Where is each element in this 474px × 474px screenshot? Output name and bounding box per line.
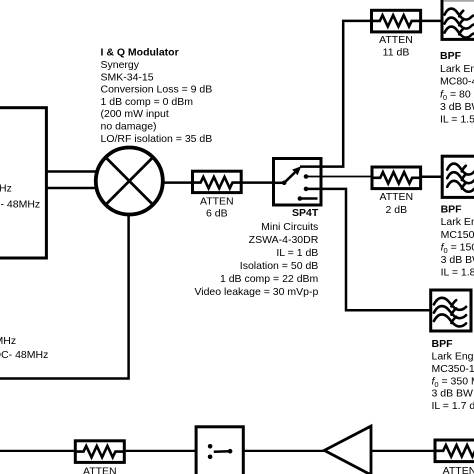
SP4T throw 2 contact and wire to ATTEN 2 dB <box>304 174 372 179</box>
svg-text:Hz: Hz <box>0 183 12 195</box>
svg-text:Video leakage = 30 mVp-p: Video leakage = 30 mVp-p <box>194 286 318 298</box>
wire ATTEN to SP2T switch <box>124 450 196 452</box>
mixer U1: I & Q modulator circle with X <box>96 148 163 215</box>
switch SP2T box (cut at bottom) <box>196 427 243 474</box>
svg-text:2 dB: 2 dB <box>385 204 407 216</box>
svg-text:Isolation = 50 dB: Isolation = 50 dB <box>240 260 319 272</box>
wire ATTEN 11 dB to BPF 80 <box>421 20 442 23</box>
svg-text:ATTEN: ATTEN <box>200 195 234 207</box>
svg-text:3 dB BW = 60 MHz: 3 dB BW = 60 MHz <box>441 254 474 266</box>
svg-text:3 dB BW = 150 MHz: 3 dB BW = 150 MHz <box>432 388 474 400</box>
bottom wire left edge to ATTEN <box>0 450 75 452</box>
SP4T label block <box>194 207 318 298</box>
SP4T throw 4 contact stub <box>298 196 318 201</box>
svg-text:MHz: MHz <box>0 335 16 347</box>
SP4T throw 3 contact and wire (down to BPF 350) <box>304 187 431 311</box>
wire SP2T to amplifier <box>243 450 326 452</box>
svg-text:Conversion Loss = 9 dB: Conversion Loss = 9 dB <box>101 84 213 96</box>
svg-text:IL = 1.7 dB: IL = 1.7 dB <box>432 400 474 412</box>
source box (cut at left edge) <box>0 108 46 258</box>
mixer label block <box>101 47 213 145</box>
svg-text:1 dB comp = 22 dBm: 1 dB comp = 22 dBm <box>220 273 319 285</box>
band-pass filter BPF 80 MHz (cut at top/right) <box>442 0 474 39</box>
svg-text:MC350-150-4AA: MC350-150-4AA <box>432 363 474 375</box>
svg-text:Mini Circuits: Mini Circuits <box>261 221 318 233</box>
wire ATTEN 6 dB to SP4T <box>241 181 273 184</box>
svg-text:Lark Engineering: Lark Engineering <box>441 216 474 228</box>
wire I input to mixer <box>46 170 106 173</box>
BPF 350 label block <box>432 338 474 412</box>
svg-text:I & Q Modulator: I & Q Modulator <box>101 47 179 59</box>
svg-text:6 dB: 6 dB <box>206 208 228 220</box>
wire mixer LO input (down and left to edge) <box>0 210 129 379</box>
svg-text:1 dB comp = 0 dBm: 1 dB comp = 0 dBm <box>101 96 194 108</box>
svg-text:IL = 1.8 dB: IL = 1.8 dB <box>441 267 474 279</box>
attenuator ATTEN 11 dB <box>372 10 421 32</box>
svg-text:SP4T: SP4T <box>292 207 319 219</box>
SP4T pole and lever arrow <box>275 166 301 185</box>
svg-text:- 48MHz: - 48MHz <box>1 198 41 210</box>
svg-text:(200 mW input: (200 mW input <box>101 108 169 120</box>
svg-text:Lark Engineering: Lark Engineering <box>440 63 474 75</box>
svg-text:ATTEN: ATTEN <box>379 191 413 203</box>
svg-text:3 dB BW = 40 MHz: 3 dB BW = 40 MHz <box>440 101 474 113</box>
svg-text:ATTEN: ATTEN <box>83 465 117 474</box>
ATTEN 6 dB label <box>200 195 234 219</box>
wire Q input to mixer <box>46 187 106 190</box>
svg-text:ZSWA-4-30DR: ZSWA-4-30DR <box>249 234 319 246</box>
svg-text:DC- 48MHz: DC- 48MHz <box>0 349 48 361</box>
ATTEN 11 dB label <box>379 34 413 59</box>
svg-text:Lark Engineering: Lark Engineering <box>432 351 474 363</box>
BPF 150 label block <box>441 204 474 279</box>
band-pass filter BPF 350 MHz <box>431 290 471 331</box>
svg-text:BPF: BPF <box>440 50 462 62</box>
svg-text:no damage): no damage) <box>101 121 157 133</box>
wire amplifier to ATTEN bottom-right <box>371 450 435 452</box>
svg-text:LO/RF isolation = 35 dB: LO/RF isolation = 35 dB <box>101 133 213 145</box>
band-pass filter BPF 150 MHz (cut at right) <box>442 156 474 197</box>
svg-text:11 dB: 11 dB <box>383 47 410 59</box>
BPF 80 label block <box>440 50 474 126</box>
svg-text:ATTEN: ATTEN <box>379 34 413 46</box>
attenuator ATTEN bottom-right (cut at right edge) <box>435 440 474 462</box>
source box label "Hz" / "- 48MHz" <box>0 183 40 211</box>
svg-text:BPF: BPF <box>441 204 463 216</box>
switch SP4T box <box>274 159 322 206</box>
svg-text:Synergy: Synergy <box>101 59 140 71</box>
svg-text:SMK-34-15: SMK-34-15 <box>101 71 154 83</box>
svg-text:MC80-40-4AA: MC80-40-4AA <box>440 76 474 88</box>
attenuator ATTEN 6 dB <box>193 171 242 192</box>
attenuator ATTEN bottom-left <box>75 441 124 463</box>
svg-text:BPF: BPF <box>432 338 454 350</box>
ATTEN 2 dB label <box>379 191 413 216</box>
svg-text:IL = 1.5 dB: IL = 1.5 dB <box>440 114 474 126</box>
amplifier A1 (pointing left, cut at bottom) <box>324 426 371 474</box>
svg-text:IL = 1 dB: IL = 1 dB <box>276 247 318 259</box>
svg-text:ATTEN: ATTEN <box>443 465 474 474</box>
svg-text:MC150-60-4AA: MC150-60-4AA <box>441 229 474 241</box>
wire ATTEN 2 dB to BPF 150 <box>421 176 443 179</box>
LO label "MHz" / "DC- 48MHz" (cut at left edge) <box>0 335 48 361</box>
attenuator ATTEN 2 dB <box>372 167 421 189</box>
SP4T throw 1 wire (to top row) <box>300 21 372 167</box>
wire mixer output to ATTEN 6 dB <box>150 181 193 184</box>
